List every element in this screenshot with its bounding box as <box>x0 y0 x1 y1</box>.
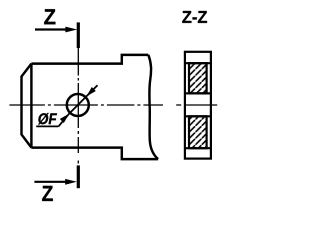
wire: body bottom edge in section <box>185 147 211 149</box>
wire: leader underline <box>36 125 58 127</box>
diameter dimension line through hole <box>36 85 97 126</box>
lower hatched cut area <box>189 116 207 148</box>
wire: leader diagonal through circle <box>59 85 98 126</box>
main view: part outline <box>22 55 159 159</box>
label Z (bottom) <box>42 186 53 201</box>
section view Z-Z <box>176 52 217 159</box>
wire: body top edge in section <box>185 62 211 64</box>
section viewing arrow, top <box>35 27 77 33</box>
hole circle <box>67 94 89 116</box>
wire: top edge with step up <box>31 55 148 64</box>
label ØF <box>38 113 57 125</box>
label Z (top) <box>44 9 55 24</box>
wire: hole upper edge in section <box>185 92 211 94</box>
wire: chamfer edge line <box>30 64 32 148</box>
label Z-Z (section title) <box>182 11 207 23</box>
arrowhead at upper-right of circle <box>86 87 95 96</box>
upper hatched cut area <box>189 63 207 93</box>
section plane thick tick, top <box>77 22 80 48</box>
wire: left chamfered edge <box>22 64 32 148</box>
wire: bottom edge with step down <box>31 148 158 160</box>
wire: vertical centerline / cutting plane line <box>77 48 79 166</box>
section plane thick tick, bottom <box>77 165 80 188</box>
wire: right broken edge (wavy) <box>148 55 158 159</box>
wire: hole lower edge in section <box>185 115 211 117</box>
wire: horizontal centerline of main view <box>9 104 163 106</box>
section viewing arrow, bottom <box>34 179 76 185</box>
flange outline rectangle <box>185 52 211 159</box>
wire: section horizontal centerline <box>176 104 217 106</box>
arrowhead at lower-left of circle <box>60 114 69 123</box>
